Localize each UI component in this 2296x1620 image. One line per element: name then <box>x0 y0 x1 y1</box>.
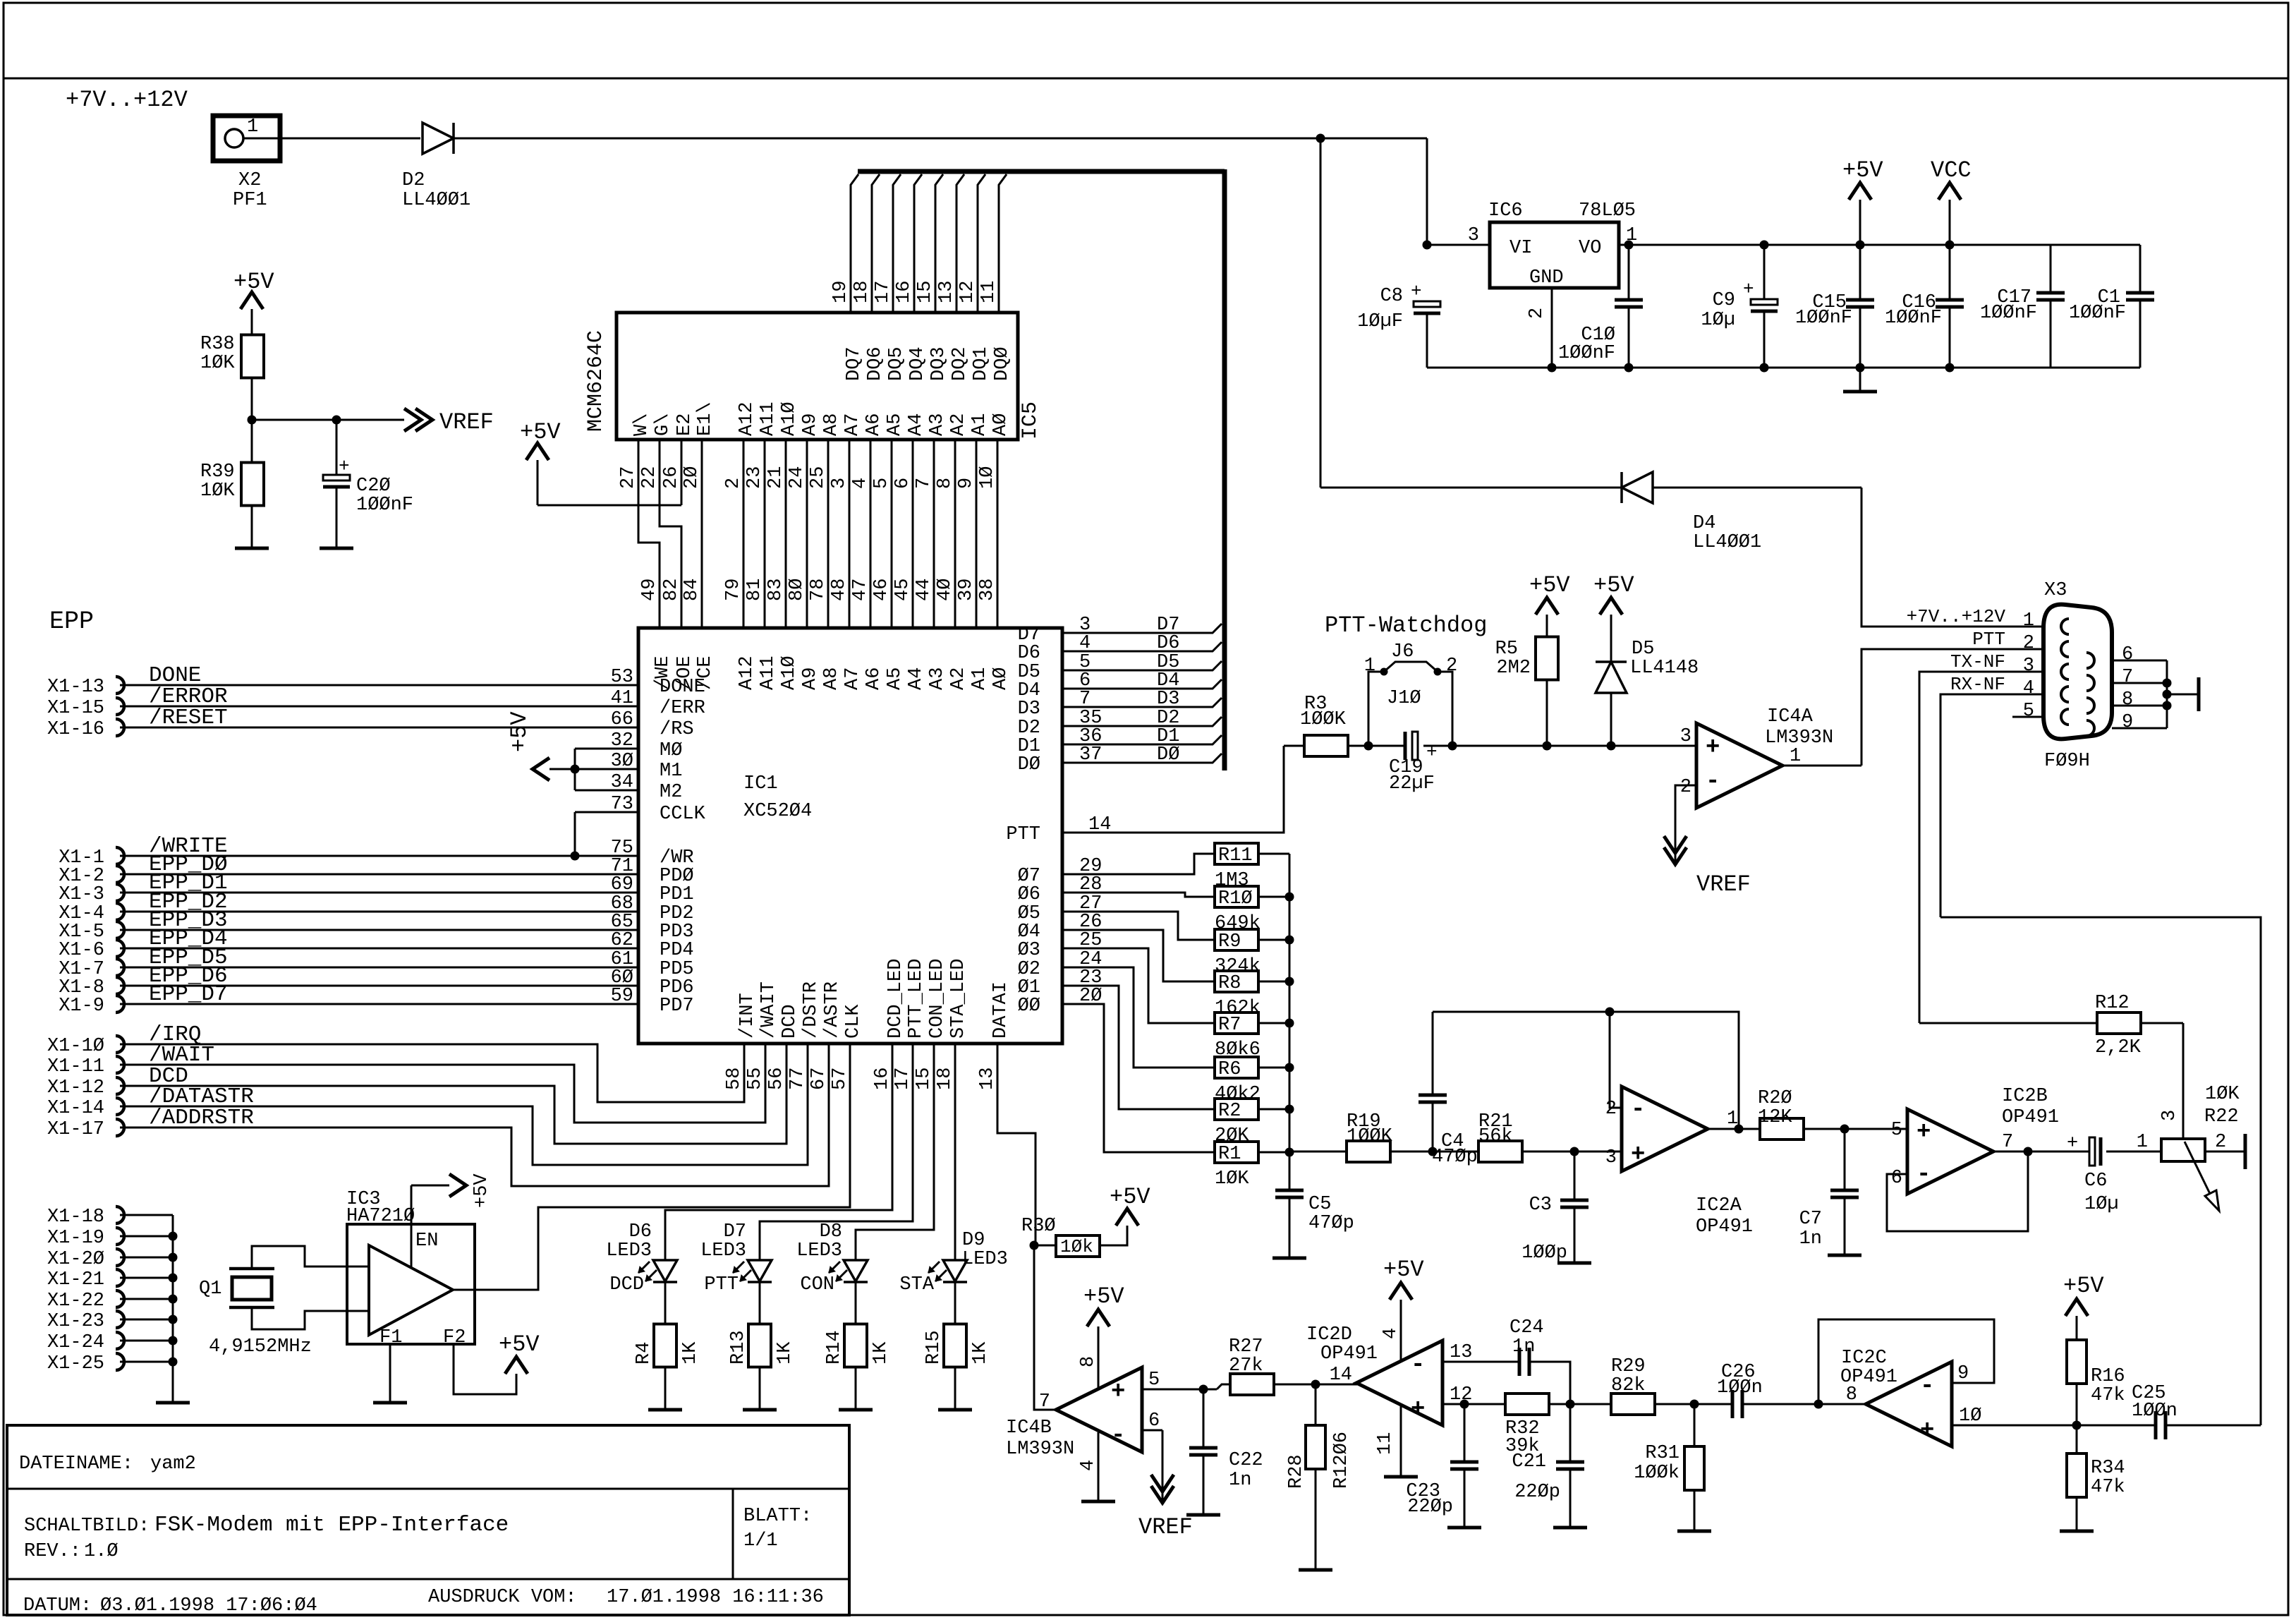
LED D6 <box>653 1260 677 1281</box>
ground C23 <box>1447 1526 1481 1530</box>
junction X3 pin7 <box>2163 679 2172 688</box>
svg-text:1ØØp: 1ØØp <box>1521 1243 1567 1264</box>
junction IC2A out <box>1735 1125 1744 1134</box>
svg-text:1ØØn: 1ØØn <box>2132 1401 2177 1422</box>
wire X3 pin5 stub <box>2012 716 2043 718</box>
svg-text:5: 5 <box>1891 1120 1902 1141</box>
svg-text:78: 78 <box>808 579 829 601</box>
resistor R6 40k2 <box>1215 1057 1258 1078</box>
wire EPP_D4 <box>120 948 638 950</box>
connector X2 PF1 <box>213 116 280 161</box>
svg-text:D2: D2 <box>402 170 425 191</box>
ground R4 <box>648 1408 682 1412</box>
svg-text:17.Ø1.1998 16:11:36: 17.Ø1.1998 16:11:36 <box>607 1587 824 1608</box>
svg-text:48: 48 <box>829 579 850 601</box>
svg-text:4: 4 <box>2023 678 2034 699</box>
svg-text:82: 82 <box>661 579 682 601</box>
svg-text:D6: D6 <box>1018 643 1040 664</box>
svg-text:53: 53 <box>611 667 633 688</box>
svg-text:A1Ø: A1Ø <box>779 401 800 436</box>
svg-text:A4: A4 <box>906 667 927 690</box>
X3 pin 4 notch <box>2061 687 2069 702</box>
svg-text:1ØØnF: 1ØØnF <box>1980 303 2037 324</box>
svg-text:RX-NF: RX-NF <box>1950 674 2005 695</box>
svg-text:2M2: 2M2 <box>1496 658 1531 679</box>
svg-text:-: - <box>1706 768 1720 795</box>
ground R13 <box>743 1408 777 1412</box>
svg-text:82k: 82k <box>1611 1375 1646 1396</box>
wire D7 to bus <box>1062 624 1222 633</box>
resistor R9 324k <box>1215 929 1258 950</box>
wire DATAI node to IC4B <box>1034 1245 1057 1410</box>
wire X1-24 <box>120 1340 173 1342</box>
svg-text:27k: 27k <box>1229 1355 1263 1377</box>
CLK wire osc to IC1 <box>453 1044 850 1290</box>
wire M0 stub <box>575 748 638 750</box>
svg-text:7: 7 <box>2002 1132 2013 1153</box>
wire STA_LED <box>954 1044 956 1260</box>
svg-text:1K: 1K <box>870 1341 892 1365</box>
svg-text:CON_LED: CON_LED <box>927 959 948 1039</box>
svg-text:66: 66 <box>611 709 633 730</box>
junction X3 pin8 <box>2163 701 2172 711</box>
svg-text:STA_LED: STA_LED <box>948 959 969 1039</box>
wire DATAI to R30 <box>997 1044 1035 1245</box>
junction C23 <box>1460 1400 1469 1409</box>
svg-text:/ERR: /ERR <box>660 698 705 719</box>
wire RX-NF vertical <box>1940 917 2261 1425</box>
junction ladder R9 <box>1285 936 1294 945</box>
pot R22 10K <box>2161 1139 2205 1161</box>
wire address A9 <box>806 440 808 628</box>
oscillator buffer triangle <box>369 1245 453 1335</box>
svg-text:PTT: PTT <box>1006 824 1040 845</box>
capacitor C24 1n <box>1518 1348 1521 1376</box>
svg-text:44: 44 <box>913 579 935 601</box>
junction D5 <box>1607 742 1616 751</box>
svg-text:47k: 47k <box>2091 1385 2125 1406</box>
wire D6 to bus <box>1062 642 1222 651</box>
capacitor C4 470p <box>1432 1102 1434 1151</box>
junction at D4 branch <box>1316 134 1325 143</box>
svg-text:1ØØK: 1ØØK <box>1347 1126 1393 1147</box>
wire C24 to junction <box>1529 1362 1570 1404</box>
ground C21 <box>1553 1526 1587 1530</box>
wire PTT to X3 pin2 <box>1861 649 2043 766</box>
svg-text:EPP_D7: EPP_D7 <box>149 982 228 1007</box>
op-amp IC4B LM393N <box>1056 1367 1142 1452</box>
svg-text:1: 1 <box>247 116 258 138</box>
wire LED to R15 <box>954 1282 956 1324</box>
wire R3 out <box>1348 745 1405 747</box>
wire C6 to R22 <box>2106 1151 2161 1153</box>
resistor R2 20K <box>1215 1099 1258 1120</box>
svg-text:C8: C8 <box>1380 286 1403 307</box>
svg-text:2: 2 <box>1446 655 1457 677</box>
wire D2 to regulator node <box>454 138 1427 140</box>
svg-text:R6: R6 <box>1218 1059 1241 1080</box>
svg-text:18: 18 <box>935 1068 956 1090</box>
svg-text:+: + <box>1706 735 1720 761</box>
pin 6 wire IC4B to VREF <box>1142 1429 1162 1432</box>
svg-text:D9: D9 <box>962 1230 985 1251</box>
wire TX-NF <box>1919 672 2043 1023</box>
svg-text:13: 13 <box>936 281 957 303</box>
svg-text:IC6: IC6 <box>1488 200 1523 222</box>
svg-text:VREF: VREF <box>1138 1514 1193 1540</box>
+5V pullup E2 <box>537 504 681 507</box>
ground R28 <box>1299 1568 1332 1572</box>
svg-text:R16: R16 <box>2091 1366 2125 1387</box>
wire R20 to IC2B <box>1804 1128 1907 1130</box>
wire X1-23 <box>120 1319 173 1321</box>
svg-text:R15: R15 <box>923 1330 944 1365</box>
svg-text:VREF: VREF <box>439 409 494 435</box>
wire O5 to R9 <box>1062 912 1215 940</box>
wire /RESET <box>120 727 638 729</box>
svg-text:5: 5 <box>871 478 892 489</box>
svg-text:C2Ø: C2Ø <box>356 476 391 497</box>
svg-text:X1-22: X1-22 <box>47 1290 104 1312</box>
X3 pin 3 notch <box>2061 664 2069 679</box>
svg-text:PF1: PF1 <box>233 190 267 211</box>
X3 pin 8 wire <box>2112 705 2167 707</box>
svg-text:X1-25: X1-25 <box>47 1353 104 1374</box>
svg-text:9: 9 <box>956 478 977 489</box>
svg-text:13: 13 <box>1450 1342 1472 1363</box>
svg-text:R13: R13 <box>728 1330 749 1365</box>
wire address A12 <box>743 440 745 628</box>
wire R1 node to R19 <box>1289 1151 1347 1153</box>
svg-text:2Ø: 2Ø <box>681 466 703 489</box>
wire R21 to IC2A <box>1522 1151 1622 1153</box>
wire X1-20 <box>120 1257 173 1259</box>
pin 12 wire IC2D <box>1442 1403 1505 1406</box>
bottom ground rail <box>1427 367 2140 369</box>
LED D8 <box>844 1260 868 1281</box>
wire VI rail <box>1427 244 1490 246</box>
svg-text:/WAIT: /WAIT <box>758 981 779 1039</box>
svg-text:EN: EN <box>415 1231 438 1252</box>
svg-text:D7: D7 <box>724 1221 746 1243</box>
junction GND pin bottom <box>1548 363 1557 373</box>
ground stub below rail <box>1856 363 1865 373</box>
ground C22 <box>1186 1513 1220 1517</box>
svg-text:IC5: IC5 <box>1019 401 1043 440</box>
wire IC5 DQ4 to bus <box>914 174 922 313</box>
svg-text:ØØ: ØØ <box>1018 996 1040 1017</box>
svg-text:A1: A1 <box>969 667 990 690</box>
svg-text:1ØØn: 1ØØn <box>1717 1377 1763 1398</box>
junction C20 <box>332 416 341 425</box>
svg-text:STA: STA <box>899 1274 934 1295</box>
wire D3 to bus <box>1062 698 1222 707</box>
junction IC2B out <box>2024 1147 2033 1156</box>
svg-text:8: 8 <box>1078 1356 1099 1367</box>
wire EPP_D5 <box>120 967 638 969</box>
wire X1-25 <box>120 1361 173 1363</box>
wire EPP_D1 <box>120 892 638 894</box>
svg-text:16: 16 <box>894 281 915 303</box>
op-amp IC2C OP491 <box>1866 1362 1952 1446</box>
svg-text:19: 19 <box>830 281 851 303</box>
svg-text:47k: 47k <box>2091 1477 2125 1498</box>
svg-text:R11: R11 <box>1218 845 1253 866</box>
svg-text:VREF: VREF <box>1696 871 1751 897</box>
svg-text:21: 21 <box>765 466 786 489</box>
svg-text:E2: E2 <box>674 413 696 436</box>
EN pin <box>411 1185 413 1268</box>
svg-text:24: 24 <box>786 466 808 489</box>
svg-text:1K: 1K <box>970 1341 991 1365</box>
svg-text:4: 4 <box>1078 1460 1099 1471</box>
svg-text:8: 8 <box>2122 689 2133 711</box>
svg-text:X1-18: X1-18 <box>47 1207 104 1228</box>
pin 27 wire W to /WE <box>638 440 660 628</box>
svg-text:Ø3.Ø1.1998 17:Ø6:Ø4: Ø3.Ø1.1998 17:Ø6:Ø4 <box>100 1595 317 1616</box>
svg-text:A5: A5 <box>885 413 906 436</box>
wire /DATASTR <box>120 1044 808 1165</box>
svg-text:AØ: AØ <box>990 667 1012 690</box>
svg-text:+: + <box>1631 1142 1645 1168</box>
svg-text:PD4: PD4 <box>660 940 694 961</box>
svg-text:X1-13: X1-13 <box>47 677 104 698</box>
pin 20 wire E1 to /CE <box>701 440 703 628</box>
wire D2 to bus <box>1062 717 1222 726</box>
vertical M0-M2 tie <box>574 749 576 790</box>
capacitor C19 22uF <box>1404 732 1407 760</box>
svg-text:MØ: MØ <box>660 740 682 761</box>
svg-text:Ø3: Ø3 <box>1018 940 1040 961</box>
capacitor C16 100nF <box>1945 363 1955 373</box>
svg-text:39: 39 <box>956 579 977 601</box>
svg-text:+: + <box>1411 281 1422 302</box>
svg-text:1ØØnF: 1ØØnF <box>2069 303 2126 324</box>
wire LED to R4 <box>664 1282 667 1324</box>
capacitor C20 100nF <box>336 420 338 475</box>
ground R31 <box>1677 1530 1711 1533</box>
wire O4 to R8 <box>1062 930 1215 981</box>
wire EPP_D6 <box>120 985 638 987</box>
svg-text:84: 84 <box>681 579 703 601</box>
svg-text:+5V: +5V <box>1842 157 1883 183</box>
svg-text:/INT: /INT <box>737 993 758 1039</box>
svg-text:/RS: /RS <box>660 719 694 740</box>
vertical CCLK to /WRITE <box>574 812 576 856</box>
junction X3 gnd stub <box>2163 690 2172 699</box>
svg-text:13: 13 <box>977 1068 998 1090</box>
wire EPP_D0 <box>120 874 638 876</box>
X3 pin 2 notch <box>2061 641 2069 657</box>
wire address A1 <box>976 440 978 628</box>
svg-text:1Øµ: 1Øµ <box>2084 1194 2119 1215</box>
resistor R1 10K <box>1215 1142 1258 1163</box>
svg-text:A7: A7 <box>842 667 863 690</box>
svg-text:22: 22 <box>639 466 660 489</box>
svg-text:A1Ø: A1Ø <box>779 655 800 690</box>
svg-text:1ØµF: 1ØµF <box>1357 311 1403 332</box>
wire DCD <box>120 1044 786 1144</box>
resistor R27 27k <box>1230 1374 1274 1395</box>
svg-text:2: 2 <box>1526 308 1548 319</box>
wire IC5 DQ3 to bus <box>935 174 943 313</box>
svg-text:-: - <box>1917 1161 1931 1188</box>
svg-text:X1-6: X1-6 <box>59 940 104 961</box>
junction C7 <box>1840 1125 1849 1134</box>
wire O6 to R10 <box>1062 893 1215 897</box>
svg-text:A2: A2 <box>948 667 969 690</box>
svg-text:DCD_LED: DCD_LED <box>885 959 906 1039</box>
svg-text:46: 46 <box>871 579 892 601</box>
capacitor C26 100n <box>1731 1390 1735 1418</box>
resistor R20 12K <box>1760 1118 1804 1140</box>
svg-text:X1-15: X1-15 <box>47 698 104 719</box>
svg-text:1K: 1K <box>775 1341 796 1365</box>
resistor R19 100K <box>1347 1141 1390 1162</box>
svg-text:J1Ø: J1Ø <box>1387 688 1421 709</box>
svg-text:38: 38 <box>977 579 998 601</box>
svg-text:X1-16: X1-16 <box>47 719 104 740</box>
wire address A2 <box>954 440 956 628</box>
svg-text:+5V: +5V <box>2063 1273 2104 1299</box>
junction ladder R1 <box>1285 1148 1294 1157</box>
wire R22 pin2 to terminal <box>2205 1151 2245 1153</box>
svg-text:4: 4 <box>1380 1328 1402 1339</box>
resistor R8 162k <box>1215 971 1258 992</box>
diode D5 LL4148 <box>1596 662 1627 693</box>
svg-text:LM393N: LM393N <box>1006 1439 1074 1460</box>
wire down to D4 line <box>1320 138 1322 488</box>
svg-text:69: 69 <box>611 874 633 895</box>
junction X1-20 <box>169 1253 178 1262</box>
svg-text:D5: D5 <box>1632 639 1654 660</box>
svg-text:DQ4: DQ4 <box>907 346 928 381</box>
svg-text:R12: R12 <box>2095 993 2130 1014</box>
svg-text:LL4ØØ1: LL4ØØ1 <box>1693 532 1761 553</box>
wire R5 to line <box>1546 680 1548 746</box>
wire R30 to +5V <box>1100 1226 1127 1245</box>
svg-text:AØ: AØ <box>990 413 1012 436</box>
svg-text:6: 6 <box>2122 644 2133 665</box>
data bus horizontal <box>858 169 1225 174</box>
svg-text:R1: R1 <box>1218 1144 1241 1165</box>
svg-text:C24: C24 <box>1510 1317 1544 1338</box>
svg-text:2: 2 <box>723 478 744 489</box>
svg-text:A8: A8 <box>821 413 842 436</box>
svg-text:15: 15 <box>913 1068 935 1090</box>
svg-text:A12: A12 <box>736 655 758 690</box>
svg-text:A11: A11 <box>758 655 779 690</box>
capacitor C21 220p <box>1569 1404 1572 1462</box>
svg-text:IC4A: IC4A <box>1767 706 1814 727</box>
svg-text:1Ø: 1Ø <box>1959 1406 1981 1427</box>
svg-text:4,9152MHz: 4,9152MHz <box>209 1336 312 1358</box>
svg-text:22Øp: 22Øp <box>1514 1482 1560 1503</box>
svg-text:+: + <box>1917 1119 1931 1146</box>
svg-text:DQ6: DQ6 <box>865 346 886 381</box>
ladder output bus vertical <box>1289 854 1291 1190</box>
resistor R16 47k <box>2067 1340 2087 1384</box>
wire X1-22 <box>120 1298 173 1300</box>
IC5 MCM6264C box <box>616 313 1018 440</box>
pin F2 <box>454 1344 516 1394</box>
svg-text:GND: GND <box>1529 267 1564 289</box>
svg-text:A4: A4 <box>906 413 927 436</box>
wire C25 to RX-NF <box>2166 1425 2261 1427</box>
svg-text:7: 7 <box>913 478 935 489</box>
junction ladder R8 <box>1285 977 1294 986</box>
wire X1-19 <box>120 1235 173 1238</box>
junction ladder R6 <box>1285 1063 1294 1072</box>
wire O2 to R6 <box>1062 967 1215 1068</box>
svg-text:+5V: +5V <box>499 1331 540 1358</box>
svg-text:C3: C3 <box>1529 1195 1552 1216</box>
junction R30 DATAI <box>1030 1241 1039 1250</box>
wire /ADDRSTR <box>120 1044 829 1186</box>
feedback IC2C unity <box>1818 1319 1994 1404</box>
wire EPP_D7 <box>120 1003 638 1005</box>
capacitor C10 100nF <box>1624 241 1634 250</box>
svg-text:IC2D: IC2D <box>1306 1324 1352 1346</box>
+5V arrow left for M pins <box>549 768 575 770</box>
svg-text:3: 3 <box>2023 655 2034 677</box>
resistor R15 1K <box>944 1324 966 1367</box>
svg-text:4: 4 <box>850 478 871 489</box>
svg-text:R29: R29 <box>1611 1356 1646 1377</box>
svg-text:R4: R4 <box>633 1342 655 1365</box>
junction IC2C out <box>1814 1400 1823 1409</box>
svg-text:FØ9H: FØ9H <box>2044 751 2090 772</box>
junction J6 pin1 drop <box>1364 742 1373 751</box>
svg-text:+5V: +5V <box>471 1173 492 1208</box>
svg-text:79: 79 <box>723 579 744 601</box>
svg-text:55: 55 <box>745 1068 766 1090</box>
wire X2 to D2 <box>280 138 420 140</box>
svg-text:1Øµ: 1Øµ <box>1701 310 1735 331</box>
pin F1 <box>389 1344 391 1403</box>
pin 11 gnd IC2D <box>1400 1404 1402 1477</box>
svg-text:4Ø: 4Ø <box>935 579 956 601</box>
svg-text:EPP: EPP <box>49 607 94 636</box>
X3 pin 7 wire <box>2112 682 2167 684</box>
wire R31 to gnd <box>1694 1490 1696 1531</box>
wire PTT_LED <box>760 1044 913 1260</box>
svg-text:X1-17: X1-17 <box>47 1119 104 1140</box>
resistor R14 1K <box>844 1324 867 1367</box>
svg-text:yam2: yam2 <box>150 1453 196 1475</box>
svg-text:DCD: DCD <box>609 1274 644 1295</box>
junction ladder R7 <box>1285 1019 1294 1028</box>
wire D4 line <box>1320 487 1622 489</box>
svg-text:D3: D3 <box>1157 689 1179 710</box>
svg-text:77: 77 <box>787 1068 808 1090</box>
junction feedback pin2 <box>1605 1008 1615 1017</box>
svg-text:VO: VO <box>1579 238 1601 259</box>
resistor R11 1M3 <box>1215 843 1258 864</box>
svg-text:+5V: +5V <box>1593 572 1634 598</box>
svg-text:12: 12 <box>957 281 978 303</box>
svg-text:R1Ø: R1Ø <box>1218 888 1253 909</box>
resistor R12 2.2K <box>1919 1022 2097 1024</box>
svg-text:OP491: OP491 <box>1840 1367 1897 1388</box>
wire R15 to ground <box>954 1367 956 1410</box>
+5V above D5 <box>1600 598 1622 615</box>
svg-text:X2: X2 <box>238 170 261 191</box>
svg-text:IC1: IC1 <box>743 773 778 794</box>
VCC arrow on rail <box>1945 241 1955 250</box>
diode D2 LL4001 <box>423 123 454 154</box>
svg-text:67: 67 <box>808 1068 830 1090</box>
